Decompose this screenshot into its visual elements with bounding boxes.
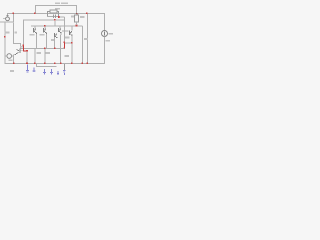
node junction rail/input riser [13, 13, 15, 15]
node red top [63, 42, 65, 44]
source V1 plus tick [6, 14, 8, 17]
label Q2 text [40, 34, 45, 36]
wire cap branch to x64 [59, 17, 65, 18]
node junction R1 top [76, 13, 78, 15]
node junction x87 top [86, 13, 88, 15]
wire V2 right lead [12, 56, 15, 57]
source V1 circle [6, 17, 10, 21]
wire bypass right drop x76 [76, 5, 77, 13]
source V2 circle [7, 54, 12, 59]
label Q5 text [65, 37, 70, 39]
wire Q2 column below rail [45, 49, 46, 64]
wire Q4 base link to Q5 [62, 30, 69, 33]
node red bottom [63, 47, 65, 49]
node Q5 emitter tap [71, 42, 73, 44]
transistor Q0 left [15, 49, 21, 56]
wire Q1 emitter column [36, 34, 37, 48]
node red base right [26, 50, 28, 52]
label I1 text [108, 33, 113, 35]
wire Q0 base lead [21, 49, 24, 52]
wire A-B link x55 [55, 21, 56, 26]
label Q1 text [30, 34, 35, 36]
label Q4 text [51, 39, 55, 41]
ground G6 under x64 [63, 64, 65, 75]
resistor R1 box [75, 15, 79, 22]
wire red base horizontal [23, 50, 27, 51]
wire rail B corner drop x82 [82, 26, 83, 64]
wire Q0 base red vertical x23.5 [23, 45, 24, 51]
node bottom x13.5 [13, 63, 15, 65]
wire bypass left drop x35 [35, 5, 36, 13]
node rail A link [54, 19, 56, 21]
transistor Q4 lower of cluster [54, 33, 58, 38]
wire input riser x13 [13, 14, 14, 22]
wire input horizontal y21.5 [0, 22, 14, 23]
node bottom x27 [26, 63, 28, 65]
wire Q3 emitter to Q4 [61, 33, 62, 35]
label text bottom left [10, 70, 14, 72]
node bottom x34.5 [34, 63, 36, 65]
wire x64 column down [64, 17, 65, 42]
source V1 left tick [3, 17, 5, 20]
wire red segment x64 [64, 42, 65, 49]
capacitor C1 lower branch [47, 16, 58, 17]
wire secondary ground line y66 [36, 66, 57, 67]
rail mid y48 [20, 48, 65, 49]
label V2 text [9, 60, 13, 62]
node R1 bottom junction [76, 25, 78, 27]
wire Q2 emitter column [46, 34, 47, 48]
label x13 net text [15, 32, 18, 34]
label text x66 [65, 55, 70, 57]
label R2 value text [55, 3, 60, 5]
rail B y25.5 [31, 26, 83, 27]
parallel group right bar [58, 11, 59, 17]
wire base feed down x13 [13, 23, 14, 44]
node rail B Q2 top [44, 25, 46, 27]
wire V2 to rail x13.5 [13, 55, 14, 64]
source I1 circle [102, 31, 108, 37]
wire V2 left lead [5, 56, 8, 57]
wire R1 bottom pin [76, 22, 77, 25]
wire x87 column [87, 14, 88, 64]
node bottom x54.5 [54, 63, 56, 65]
ground G4 [50, 69, 53, 75]
node junction bypass left [34, 13, 36, 15]
wire top bypass rail y5 [35, 5, 77, 6]
label Q0 text [20, 46, 24, 48]
ground G3 [43, 69, 46, 75]
wire rail A left drop x23 [23, 20, 24, 45]
label text near x84 [84, 38, 88, 40]
ground G5 [57, 71, 59, 75]
source I1 arrow [103, 32, 106, 36]
label C1 text [55, 8, 60, 10]
label text under rail mid right [46, 52, 51, 54]
wire Q3b column down x60.5 [60, 35, 61, 64]
node bottom x82 [81, 63, 83, 65]
source V1 drop from rail [7, 13, 8, 17]
rail A y19.5 [23, 20, 64, 21]
node bottom x87 [86, 63, 88, 65]
wire left column corner [5, 56, 6, 64]
wire left column x5 [5, 23, 6, 57]
node left column label dot [4, 36, 6, 38]
transistor Q3 upper [58, 27, 62, 33]
wire R1 top pin [76, 14, 77, 15]
wire R2 right lead [57, 10, 59, 13]
label text under rail mid left [37, 52, 42, 54]
node mid rail Q2 [44, 48, 46, 50]
wire top rail y13 [7, 13, 105, 14]
node bottom x60.5 [60, 63, 62, 65]
wire base jog y43 [13, 43, 21, 44]
wire tap to x64 [65, 42, 71, 43]
rail bottom y63.5 [5, 63, 105, 64]
capacitor C1 plates [53, 15, 54, 19]
wire R2 left lead [47, 10, 50, 13]
transistor Q1 [33, 27, 37, 35]
ground G1 [26, 65, 29, 73]
wire x27 down to rail [27, 52, 28, 64]
label net text right column [105, 40, 110, 42]
resistor R2 box [50, 10, 57, 13]
node red base top [22, 44, 24, 46]
label R1 text [71, 16, 74, 18]
parallel group left bar [47, 11, 48, 17]
wire ground line left riser [36, 64, 37, 66]
label R1 value text [80, 16, 85, 18]
wire Q1 column below rail [35, 49, 36, 64]
ground G2 [33, 68, 36, 73]
wire Q5 emitter column x71.5 [72, 36, 73, 64]
node bottom x44.5 [44, 63, 46, 65]
transistor Q5 [69, 27, 73, 36]
right column riser x104 [104, 14, 105, 31]
node bottom x71.5 [71, 63, 73, 65]
transistor Q2 [43, 27, 47, 35]
wire Q0 collector drop x20.5 [20, 43, 21, 48]
wire right column lower [104, 37, 105, 65]
node mid rail Q3 [54, 48, 56, 50]
node junction C branch right [58, 16, 60, 18]
label left net text [5, 32, 10, 34]
wire Q3a column down x54.5 [54, 37, 55, 48]
